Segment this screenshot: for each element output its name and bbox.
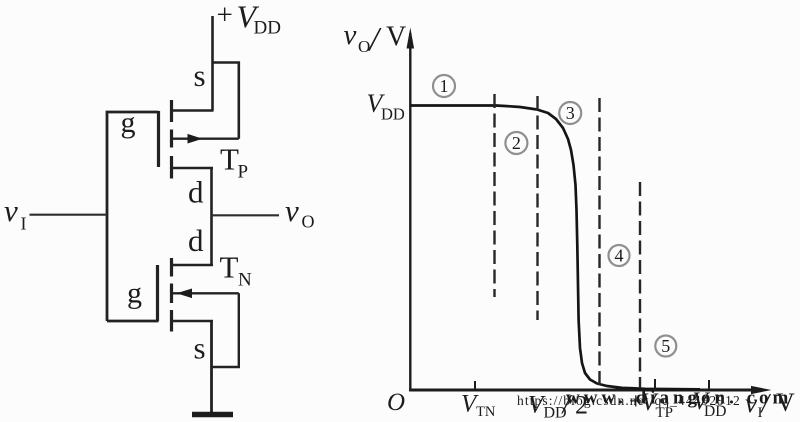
svg-text:P: P xyxy=(238,162,249,183)
label VDD right xyxy=(693,388,727,420)
region marker 1 circled xyxy=(433,75,455,97)
svg-text:+: + xyxy=(217,0,233,31)
svg-text:s: s xyxy=(194,331,206,366)
svg-text:www. diangon. com: www. diangon. com xyxy=(566,388,792,409)
svg-text:DD: DD xyxy=(381,105,405,124)
transistor Q2 NMOS gate bar xyxy=(156,265,159,321)
svg-text:O: O xyxy=(387,389,405,416)
wire NMOS drain stub xyxy=(173,264,213,267)
ground xyxy=(192,412,233,418)
wire PMOS source stub xyxy=(172,109,214,112)
svg-text:V: V xyxy=(386,22,406,53)
svg-text:g: g xyxy=(127,277,142,310)
dashed boundary line 4 xyxy=(639,182,641,388)
tick VTN xyxy=(474,381,476,390)
wire gate rail xyxy=(107,112,159,321)
label VDD/2 xyxy=(528,389,588,422)
svg-text:v: v xyxy=(4,193,18,228)
svg-text:d: d xyxy=(188,175,204,210)
wire output lead xyxy=(212,214,280,216)
label VTN xyxy=(461,391,496,421)
wire VDD vertical xyxy=(211,16,214,111)
svg-text:1: 1 xyxy=(440,76,449,96)
dashed boundary line 3 xyxy=(598,98,600,385)
svg-text:N: N xyxy=(238,270,252,291)
node vI input label xyxy=(4,193,27,234)
transistor Q1 PMOS body stub with arrow xyxy=(173,134,239,144)
wire NMOS source stub xyxy=(173,320,213,323)
svg-text:5: 5 xyxy=(661,336,670,356)
wire NMOS body down connector xyxy=(212,293,239,367)
label TN (transistor name) xyxy=(220,250,253,291)
wire NMOS gate bottom horizontal xyxy=(107,320,159,323)
wire input lead xyxy=(30,214,108,216)
svg-text:v: v xyxy=(344,19,357,51)
transfer curve xyxy=(411,106,701,390)
svg-text:3: 3 xyxy=(566,103,575,123)
svg-text:DD: DD xyxy=(254,18,281,39)
svg-text:4: 4 xyxy=(615,246,624,266)
node +VDD supply label xyxy=(217,0,281,39)
label TP (transistor name) xyxy=(220,142,248,183)
svg-text:d: d xyxy=(188,223,204,258)
svg-text:g: g xyxy=(121,106,136,139)
region marker 3 circled xyxy=(559,102,581,124)
dashed boundary line 2 xyxy=(536,96,538,320)
label vI/V axis title xyxy=(745,388,795,421)
label vO/V axis title xyxy=(344,19,407,58)
svg-text:O: O xyxy=(358,37,370,56)
tick VDD xyxy=(708,380,710,390)
transistor Q1 PMOS gate bar xyxy=(157,111,160,167)
wire NMOS source down to ground xyxy=(210,321,213,413)
label VDD+VTP xyxy=(629,389,673,421)
svg-text:T: T xyxy=(220,250,239,285)
svg-text:s: s xyxy=(194,58,206,93)
x-axis vI/V with arrow xyxy=(409,386,771,394)
svg-text:TN: TN xyxy=(476,404,496,420)
region marker 4 circled xyxy=(609,245,630,266)
wire output node vertical xyxy=(210,167,213,265)
node vO output label xyxy=(285,193,315,232)
svg-text:T: T xyxy=(220,142,239,177)
transistor Q2 NMOS channel bars xyxy=(170,258,173,332)
svg-text:I: I xyxy=(21,214,27,234)
svg-text:/: / xyxy=(368,21,383,58)
label VDD on y-axis xyxy=(367,89,405,124)
transistor Q1 PMOS channel bars xyxy=(170,100,173,179)
y-axis vO/V with arrow xyxy=(407,28,415,392)
svg-text:2: 2 xyxy=(512,133,521,153)
region marker 2 circled xyxy=(505,132,527,154)
svg-text:O: O xyxy=(302,212,315,232)
svg-text:v: v xyxy=(285,193,299,228)
wire PMOS drain stub xyxy=(173,167,213,170)
transistor Q2 NMOS body stub with arrow xyxy=(173,289,239,299)
region marker 5 circled xyxy=(655,336,676,357)
tick VDD+VTP xyxy=(654,379,656,390)
dashed boundary line 1 xyxy=(493,94,495,297)
wire VDD branch to PMOS body xyxy=(213,63,239,139)
